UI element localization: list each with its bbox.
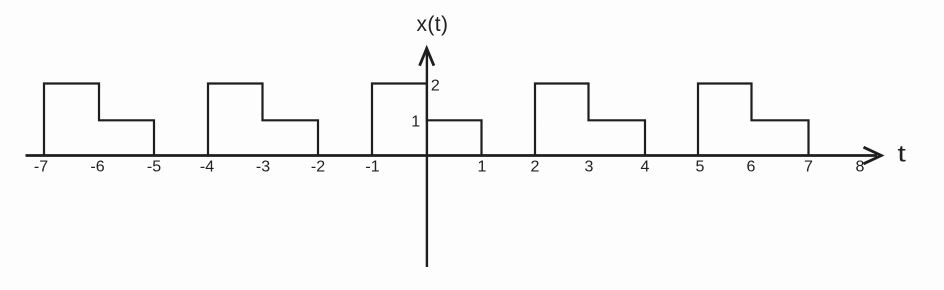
svg-text:2: 2 — [431, 78, 440, 95]
svg-text:3: 3 — [585, 159, 594, 176]
x-axis arrowhead — [864, 147, 882, 164]
pulse at t=-1..1 — [372, 84, 482, 156]
svg-text:7: 7 — [804, 159, 813, 176]
svg-text:-1: -1 — [365, 159, 379, 176]
svg-text:-2: -2 — [311, 159, 325, 176]
svg-text:1: 1 — [411, 114, 420, 131]
x-axis — [26, 154, 878, 157]
pulse at t=5..7 — [698, 84, 809, 156]
svg-text:2: 2 — [531, 159, 540, 176]
pulse at t=-4..-2 — [208, 84, 318, 156]
svg-text:4: 4 — [641, 159, 650, 176]
svg-text:-7: -7 — [34, 159, 48, 176]
pulse at t=-7..-5 — [44, 84, 154, 156]
svg-text:t: t — [898, 141, 907, 167]
svg-text:-3: -3 — [256, 159, 270, 176]
svg-text:8: 8 — [856, 159, 865, 176]
svg-text:1: 1 — [478, 159, 487, 176]
svg-text:6: 6 — [747, 159, 756, 176]
svg-text:-6: -6 — [90, 159, 104, 176]
svg-text:x(t): x(t) — [417, 13, 449, 36]
y-axis arrowhead — [420, 48, 434, 65]
svg-text:-5: -5 — [147, 159, 161, 176]
pulse at t=2..4 — [535, 84, 645, 156]
svg-text:-4: -4 — [200, 159, 214, 176]
svg-text:5: 5 — [696, 159, 705, 176]
y-axis — [426, 50, 428, 267]
